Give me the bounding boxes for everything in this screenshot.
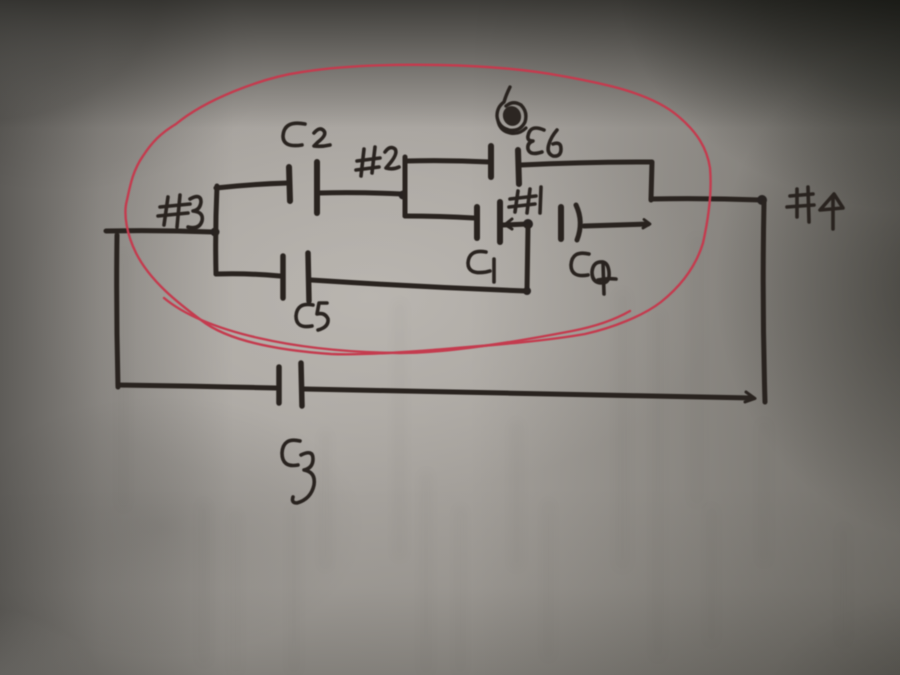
red circled loop [125,65,710,355]
wire node3 vertical bus [216,186,217,274]
wire bus to node 4 [651,199,761,200]
wire top branch to C2 [216,183,288,188]
label C2 [283,123,305,145]
scribble blob above C6 [497,87,526,130]
wire node2 to C6 [406,161,490,162]
capacitor C6 [488,146,494,177]
capacitor C5 [280,256,286,298]
show-through text smudges [118,250,129,510]
label #3 [164,197,168,225]
label #4 [795,189,799,217]
capacitor C1 [474,207,480,238]
node #3 junction dot [211,228,220,237]
label #2 [361,149,364,176]
junction dot bottom of node1 [523,287,531,295]
capacitor C2 [289,167,290,201]
label C6 [528,128,544,153]
wire C6 to right bus [521,162,651,165]
label #1 [515,191,518,212]
node #4 junction dot [757,195,767,205]
wire right inner bus [651,162,652,200]
wire bottom right with arrow [304,389,752,398]
wire C4 to right bus with arrow [584,224,648,226]
wire left outer vertical [117,235,118,387]
wire C1 to node 1 with arrow [503,224,528,225]
label C5 [296,304,313,326]
node #1 junction dot [523,219,533,229]
label C4 [571,253,589,275]
wire right outer vertical [763,202,765,402]
wire C2 to node 2 [319,193,402,194]
wire node1 down [527,226,528,291]
red doubled bottom stroke [164,298,630,353]
wire node3 bus to C5 [216,274,280,276]
label C3 [282,440,300,465]
capacitor C4 [558,207,564,239]
capacitor C3 [276,367,282,403]
label C1 [468,251,490,272]
wire bottom left [118,385,276,388]
node #2 bar [403,157,408,216]
wire node2 to C1 [405,216,474,218]
wire left lead to node 3 [106,231,213,232]
node #2 junction dot [399,191,408,200]
wire C5 to node1 bottom [311,280,526,291]
